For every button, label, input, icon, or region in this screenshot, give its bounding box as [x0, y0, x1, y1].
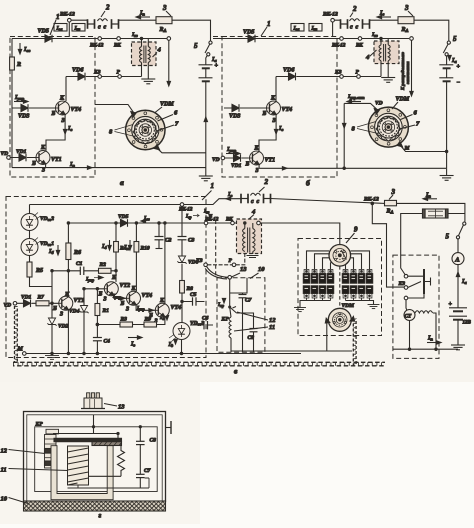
svg-text:Iкз: Iкз [311, 26, 318, 32]
diode VD6 [78, 73, 85, 81]
resistor RA v [385, 200, 397, 205]
svg-text:R5: R5 [35, 268, 43, 274]
ammeter A [457, 239, 459, 253]
svg-text:1: 1 [267, 20, 271, 28]
case side HT terminal [166, 427, 172, 429]
svg-text:Iд: Iд [168, 342, 174, 348]
svg-text:c: c [98, 25, 101, 31]
contact pile stack [46, 429, 59, 434]
battery to ground [457, 320, 459, 345]
ground of secondary [141, 79, 155, 84]
svg-text:Iупр.опт: Iупр.опт [347, 94, 364, 100]
svg-text:2: 2 [352, 5, 357, 13]
svg-text:VDM: VDM [396, 97, 410, 103]
capacitor C4 [93, 337, 102, 339]
wire to RA [370, 19, 399, 21]
switch 5 v [463, 222, 466, 225]
terminal P [357, 75, 361, 79]
HV output terminal [167, 37, 171, 41]
VT4-2 collector to bus2 [164, 223, 166, 304]
LED VDsv2 [21, 214, 38, 231]
terminal K3 [98, 75, 102, 79]
HV coil wire [208, 222, 237, 224]
terminal P v [232, 263, 236, 267]
boxed label Iкз [309, 24, 322, 32]
VDM input contact wedge [131, 112, 136, 118]
shielded feed arc K3 to breaker box [207, 267, 228, 278]
svg-text:Б: Б [51, 111, 56, 117]
capacitor C7 [242, 293, 244, 352]
svg-text:VD5: VD5 [118, 214, 129, 220]
ground inside coil box [247, 255, 259, 257]
svg-text:+: + [457, 64, 461, 70]
svg-text:Iел: Iел [56, 26, 63, 32]
chassis ground on M bus [45, 356, 59, 360]
svg-text:R2: R2 [99, 262, 107, 268]
unit enclosure (dashed box) diagram v [6, 197, 206, 358]
bottom internal bus [68, 478, 150, 488]
svg-text:13: 13 [118, 404, 125, 411]
svg-text:VD1: VD1 [21, 295, 32, 301]
resistor R6 [67, 223, 69, 271]
svg-text:3: 3 [391, 188, 396, 196]
wire to switch [414, 20, 449, 41]
transformer v leads [245, 223, 253, 254]
svg-text:R1: R1 [102, 308, 110, 314]
VDM output contact wedge M [397, 141, 402, 146]
svg-text:а: а [120, 178, 124, 187]
terminal BK-12 upper [331, 18, 335, 22]
primary feed wire [207, 254, 244, 265]
svg-text:VD6: VD6 [283, 68, 294, 74]
terminal BK-12 upper [68, 18, 72, 22]
svg-text:ВК-12: ВК-12 [331, 44, 346, 49]
magnetic yoke (U channel) [51, 446, 113, 500]
svg-text:VD: VD [375, 101, 383, 107]
transistor VT2 [115, 271, 117, 282]
wire A to battery [457, 265, 459, 308]
diode VD5 [45, 35, 52, 43]
svg-text:С7: С7 [144, 468, 151, 474]
VT4 emitter to VT4-2 base [136, 305, 155, 311]
switch 5 [209, 41, 212, 44]
wire RA to switch [397, 203, 465, 222]
svg-text:RА: RА [159, 27, 167, 33]
terminal VD [7, 156, 11, 160]
svg-text:VT1: VT1 [51, 157, 62, 163]
svg-text:ВК-12: ВК-12 [322, 12, 338, 18]
svg-text:ВК-12: ВК-12 [59, 12, 75, 18]
svg-text:Iкз: Iкз [74, 26, 81, 32]
battery GB diagram b [446, 56, 448, 168]
terminal BK [358, 37, 362, 41]
junction to relay feed [371, 202, 374, 205]
LED VDsv3 [181, 302, 183, 323]
armature pivot hatched block [92, 442, 122, 446]
svg-text:VT4: VT4 [71, 107, 82, 113]
svg-text:VD2: VD2 [58, 324, 69, 330]
wire [30, 256, 53, 287]
svg-text:RА: RА [386, 209, 394, 215]
resistor R10 [135, 223, 137, 291]
svg-text:VD4: VD4 [69, 309, 80, 315]
bottom return wire [259, 167, 447, 169]
svg-text:VT4: VT4 [171, 305, 182, 311]
transistor VT4 (first) [127, 291, 141, 305]
relay contact terminals [404, 274, 408, 278]
svg-text:З: З [61, 118, 65, 124]
capacitor C8 [237, 313, 254, 352]
wire from VDM left wedge down to HT lead [326, 323, 328, 351]
svg-text:2: 2 [264, 178, 269, 186]
svg-text:1: 1 [56, 13, 60, 21]
svg-text:VD: VD [4, 303, 12, 309]
svg-text:VT4: VT4 [142, 293, 153, 299]
capacitor C5 branch [182, 301, 205, 303]
capacitor C7 g [136, 473, 145, 475]
resistor R5 [27, 262, 32, 277]
terminal K3 v [204, 263, 208, 267]
armature bar [54, 438, 122, 441]
svg-text:I4: I4 [101, 244, 107, 250]
svg-text:C4: C4 [104, 339, 111, 345]
svg-text:1: 1 [211, 182, 215, 190]
terminal connector 13 on case top [84, 398, 102, 409]
svg-text:Б: Б [98, 292, 103, 298]
svg-text:Б: Б [52, 306, 57, 312]
HV arrow to VDM [168, 40, 170, 84]
zener VD2 on divider [51, 271, 53, 354]
top supply bus [30, 199, 241, 205]
svg-text:Iв: Iв [67, 126, 72, 132]
svg-text:Iв: Iв [278, 126, 283, 132]
VDM v left wedge [325, 318, 330, 323]
svg-text:Б: Б [245, 162, 250, 168]
svg-text:З: З [103, 297, 107, 303]
breaker internal wiring [230, 278, 247, 306]
svg-text:R6: R6 [73, 250, 81, 256]
svg-text:A: A [454, 257, 460, 264]
VT2 emitter to VT4 base [114, 295, 127, 298]
current label Iэ [128, 337, 141, 339]
svg-text:Iкз: Iкз [131, 32, 138, 38]
connector H right [363, 19, 370, 29]
diode VD6 [289, 73, 296, 81]
transformer leads [381, 39, 388, 78]
resistor R8 [181, 264, 183, 302]
distributor rotor dashes to VDM [339, 266, 341, 307]
distributor unit dashed box 9 [298, 239, 382, 336]
terminal BK-12 lower [340, 37, 344, 41]
svg-text:R9: R9 [144, 317, 152, 323]
wire left branch with resistor R [11, 39, 13, 168]
HV leads from cap to plugs left [307, 251, 332, 270]
svg-text:СТ: СТ [405, 314, 412, 319]
svg-text:c: c [104, 25, 107, 31]
spark plugs row (8) [303, 270, 309, 301]
additional resistor (zigzag) [118, 444, 125, 477]
svg-text:Iев: Iев [23, 47, 30, 53]
HV leads from cap to plugs right [346, 251, 370, 270]
ground of secondary [381, 78, 395, 83]
svg-text:5: 5 [446, 233, 450, 241]
svg-text:ВК-12: ВК-12 [363, 197, 379, 203]
svg-text:C2: C2 [165, 238, 172, 244]
connector H right [112, 19, 119, 29]
resistors R3 R9 chain [97, 324, 144, 326]
svg-text:Iкз: Iкз [203, 210, 210, 215]
breaker contact KP [229, 306, 231, 308]
svg-text:c: c [257, 199, 260, 205]
svg-text:VDM: VDM [342, 303, 356, 309]
svg-text:Iэ: Iэ [130, 342, 135, 348]
svg-text:ВК: ВК [355, 44, 363, 49]
VT4-2 emitter down [157, 317, 165, 325]
resistor R [10, 57, 15, 70]
terminal K3 [340, 75, 344, 79]
svg-text:КР: КР [221, 317, 230, 323]
HV arrow to distributor [411, 40, 413, 94]
svg-text:К3: К3 [398, 281, 406, 287]
wire out of VDM [400, 145, 447, 152]
svg-text:К3: К3 [195, 258, 203, 264]
unit enclosure (dashed shield box) diagram b [222, 37, 337, 178]
svg-text:+: + [449, 302, 453, 308]
VDM input contact wedge VD [374, 109, 379, 115]
svg-text:Iер: Iер [185, 215, 192, 220]
capacitor C3 chain from bus junction [181, 206, 183, 256]
svg-text:г: г [99, 511, 102, 520]
HV output terminal [410, 37, 414, 41]
wire VDM control left branch [344, 103, 377, 168]
resistor RA [156, 17, 172, 24]
shielded screen left riser [14, 306, 16, 362]
svg-text:VT1: VT1 [265, 158, 276, 164]
breaker cam coil [229, 317, 231, 338]
boxed label Iел [54, 24, 67, 32]
svg-text:R10: R10 [140, 246, 150, 252]
bottom power wire [393, 348, 458, 350]
wire [29, 205, 31, 239]
hatched base plate 10 [24, 501, 166, 511]
transformer 4 (ignition coil) diagram b [374, 41, 399, 64]
svg-text:З: З [255, 168, 259, 174]
inner frame [35, 427, 158, 492]
svg-text:С8: С8 [150, 438, 157, 444]
starter CT [404, 310, 415, 321]
transistor VT1 v [59, 296, 73, 310]
diode VD1 [10, 157, 36, 159]
svg-text:VD5: VD5 [243, 30, 254, 36]
zener VD6 v [177, 256, 186, 264]
unit enclosure (dashed shield box) diagram a [10, 37, 95, 178]
svg-text:VD1: VD1 [231, 163, 242, 169]
wire [69, 20, 87, 36]
wire collector VT4 [65, 77, 67, 102]
terminal BK [231, 221, 235, 225]
transistor VT4 diagram b [267, 101, 281, 115]
svg-text:VD3: VD3 [229, 114, 240, 120]
bottom return wire [12, 167, 206, 169]
svg-text:C3: C3 [188, 238, 195, 244]
connector H right [264, 194, 271, 204]
connector feed wire [93, 415, 95, 434]
base bias wire with C1 R2 [52, 270, 116, 272]
svg-text:12: 12 [269, 317, 276, 324]
svg-text:К3: К3 [334, 70, 342, 76]
svg-text:Iупр: Iупр [112, 295, 121, 300]
svg-text:ВК-12: ВК-12 [89, 44, 104, 49]
svg-text:зажигания: зажигания [405, 61, 410, 85]
connector H left [341, 19, 348, 29]
ground bottom right [440, 176, 454, 181]
wire into VDM [95, 105, 134, 113]
svg-text:б: б [306, 179, 310, 188]
battery 12V [449, 307, 467, 309]
diode VD3 [12, 107, 51, 109]
plug ground rail left [300, 301, 331, 308]
svg-text:Б: Б [31, 161, 36, 167]
capacitor C6 branch [190, 324, 213, 326]
M terminal and bus [23, 352, 27, 356]
svg-text:З: З [272, 118, 276, 124]
shielded riser (striped) at x=354 [352, 319, 354, 367]
svg-text:11: 11 [269, 324, 275, 331]
wire [333, 20, 340, 36]
svg-text:R7: R7 [37, 295, 45, 301]
svg-text:ВК: ВК [113, 44, 121, 49]
svg-text:R3: R3 [120, 317, 128, 323]
transformer 4 (ignition coil) diagram a [132, 42, 157, 66]
starter return [409, 321, 411, 350]
distributor (cap) [329, 245, 351, 267]
transistor VT1 diagram b [250, 151, 264, 165]
svg-text:Iп: Iп [69, 162, 75, 168]
zener VD4 [83, 289, 85, 354]
diode VD1 [225, 157, 249, 159]
VT1 base wire R7 VD1 [17, 302, 59, 304]
svg-text:R: R [16, 62, 21, 68]
resistor R2 [99, 268, 112, 273]
ground under battery [199, 176, 213, 181]
breaker unit dashed box 10 [217, 278, 265, 353]
svg-text:К распределителю: К распределителю [400, 51, 405, 91]
svg-text:RА: RА [401, 27, 409, 33]
fuse block [423, 209, 449, 218]
motor-generator VDM diagram a [126, 110, 165, 149]
svg-text:VD6: VD6 [72, 68, 83, 74]
svg-text:VDсв2: VDсв2 [40, 216, 54, 222]
wire to RA [119, 19, 157, 21]
svg-text:12: 12 [1, 448, 8, 455]
VT2 base wire to VD4 node [84, 288, 104, 290]
HV terminal out of coil [257, 221, 261, 225]
wire resistor to coil [89, 475, 122, 477]
svg-text:З: З [41, 168, 45, 174]
svg-text:С7: С7 [245, 298, 252, 304]
junction [380, 37, 382, 39]
svg-text:VD5: VD5 [38, 29, 49, 35]
junction terminal on bus [180, 203, 184, 207]
svg-text:С8: С8 [248, 335, 255, 341]
wire collector VT4 [275, 77, 277, 102]
svg-text:9: 9 [354, 226, 358, 234]
arrow up on return wire [204, 117, 207, 122]
svg-text:Iупр: Iупр [136, 307, 145, 312]
relay case outer walls [24, 412, 166, 502]
svg-text:З: З [59, 312, 63, 318]
boxed label Iел [291, 24, 304, 32]
VT1 emitter down [67, 310, 69, 354]
VDM output contact wedge [154, 144, 159, 149]
switch 5 [447, 41, 450, 44]
breaker input terminal [228, 276, 232, 280]
svg-text:VD3: VD3 [18, 114, 29, 120]
svg-text:+: + [215, 63, 219, 69]
svg-text:VDM: VDM [160, 102, 174, 108]
relay K3 dashed box [393, 255, 439, 358]
svg-text:VT2: VT2 [120, 283, 131, 289]
svg-text:ВК-12: ВК-12 [178, 208, 193, 213]
svg-text:Iкз: Iкз [371, 32, 378, 38]
wire top bus [213, 38, 409, 40]
resistor R4 [115, 223, 117, 271]
svg-text:З: З [125, 307, 129, 313]
svg-text:Б: Б [262, 111, 267, 117]
capacitor C8 g [136, 440, 145, 442]
svg-text:Iел: Iел [293, 26, 300, 32]
svg-text:VD: VD [1, 151, 9, 157]
magneto VDM v [328, 308, 351, 331]
relay armature [408, 276, 424, 298]
svg-text:C5: C5 [190, 292, 197, 298]
resistor R1 [96, 289, 98, 354]
svg-text:Iупр: Iупр [85, 277, 94, 283]
svg-text:c: c [251, 199, 254, 205]
svg-text:5: 5 [194, 42, 198, 50]
fuse leads [401, 214, 465, 277]
terminal P [118, 75, 122, 79]
plug ground rail right [346, 301, 374, 305]
svg-text:VD: VD [212, 157, 220, 163]
svg-text:5: 5 [453, 35, 457, 43]
connector H left [88, 19, 95, 29]
svg-text:Б: Б [120, 301, 125, 307]
svg-text:c: c [350, 25, 353, 31]
junction Iкз [140, 37, 142, 39]
diode VD5 [248, 35, 255, 43]
transistor VT4 (second) [155, 303, 169, 317]
wire from connector to RA [271, 199, 385, 204]
svg-text:C6: C6 [202, 316, 209, 322]
contact spring wire [53, 434, 118, 439]
terminal BK-12 lower [98, 37, 102, 41]
transistor VT4 [56, 101, 70, 115]
capacitor C2 [158, 223, 160, 249]
wire out of VDM [157, 148, 206, 153]
svg-text:Iб: Iб [48, 249, 54, 255]
svg-text:VT4: VT4 [282, 107, 293, 113]
motor-generator VDM diagram b [368, 107, 408, 147]
wire K3-P-primary [66, 76, 142, 78]
terminal BK [117, 37, 121, 41]
boxed label Iкз [72, 24, 85, 32]
svg-text:КР: КР [35, 422, 44, 428]
terminal BK-12 on unit edge [204, 221, 208, 225]
low tension lead under VDM [231, 350, 352, 352]
resistor RA [398, 17, 414, 24]
shield screen segment near K3 wire [215, 220, 217, 277]
